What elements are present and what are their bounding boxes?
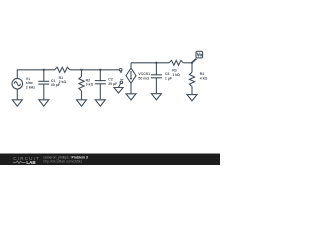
node C3 junction: [155, 62, 157, 64]
wire V1 bottom: [16, 89, 18, 100]
svg-text:2 kHz: 2 kHz: [26, 85, 35, 89]
wire rail to VCCS plus terminal: [70, 69, 120, 71]
svg-text:3 kΩ: 3 kΩ: [86, 83, 94, 87]
capacitor C1: [38, 70, 49, 100]
svg-text:R4: R4: [200, 72, 205, 76]
wire right rail: [131, 62, 169, 64]
controlled source VCCS1 diamond: [126, 63, 136, 94]
ground below C2: [95, 100, 105, 106]
component labels: [26, 53, 208, 90]
ground below V1: [12, 100, 22, 106]
footer bar: [0, 154, 220, 166]
VCCS1 plus control terminal: [119, 69, 122, 72]
node C2 junction: [99, 69, 101, 71]
node R2 junction: [80, 69, 82, 71]
label plus sign: [120, 71, 122, 73]
capacitor C3: [151, 63, 162, 94]
svg-text:50 mΩ: 50 mΩ: [138, 76, 149, 80]
node flag Vo box: [196, 51, 203, 58]
ground below R2: [77, 100, 87, 106]
voltage source V1: [12, 78, 23, 89]
resistor R3: [169, 60, 183, 65]
svg-text:2 kΩ: 2 kΩ: [59, 80, 67, 84]
label minus sign: [120, 78, 123, 80]
label Vo text: [197, 53, 202, 56]
svg-text:4 kΩ: 4 kΩ: [200, 77, 208, 81]
svg-text:http://circuitlab.com/c65kz: http://circuitlab.com/c65kz: [43, 159, 82, 163]
resistor R1: [55, 67, 70, 72]
ground below VCCS1: [126, 94, 136, 100]
svg-text:1 kΩ: 1 kΩ: [172, 73, 180, 77]
node flag Vo leader: [192, 59, 196, 63]
node output junction: [191, 62, 193, 64]
capacitor C2: [95, 70, 106, 100]
ground below R4: [187, 95, 197, 101]
svg-text:20 µF: 20 µF: [108, 82, 118, 86]
wire R3 to output node: [183, 62, 192, 64]
ground below C1: [39, 100, 49, 106]
wire left rail: [17, 70, 55, 79]
resistor R4: [189, 63, 194, 95]
wire minus terminal to ground: [119, 83, 121, 87]
svg-text:LAB: LAB: [26, 160, 36, 165]
ground below C3: [151, 94, 161, 100]
VCCS1 minus control terminal: [120, 81, 123, 84]
ground at VCCS minus terminal: [114, 88, 123, 94]
logo waveform: [13, 161, 26, 164]
node C1 junction: [43, 69, 45, 71]
resistor R2: [79, 70, 84, 100]
svg-text:R3: R3: [172, 69, 177, 73]
